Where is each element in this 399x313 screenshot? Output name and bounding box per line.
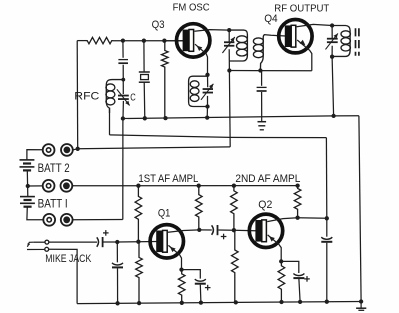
node junction osc tank bottom <box>205 104 209 108</box>
wire battery mid to jack <box>28 185 43 187</box>
node junction ground bus / crystal <box>143 116 147 120</box>
node junction Q1 base / C9 <box>115 240 119 244</box>
capacitor C3 (variable, tuning C) <box>118 95 129 97</box>
wire ground riser (bus to battery negative) <box>122 119 124 220</box>
inductor T1 primary winding <box>229 30 247 61</box>
wire mike jack tip lead <box>33 241 45 243</box>
capacitor C6 (RF bypass) <box>257 86 267 88</box>
wire right-side ground return <box>359 116 361 302</box>
wire Q1 emitter to C10 <box>182 270 201 279</box>
connector mike jack plug symbol <box>27 242 33 247</box>
crystal Y1 upper lead <box>143 41 145 72</box>
arrow Q2 emitter (PNP, pointing in) <box>269 236 275 241</box>
wire row3 jack to ground riser <box>73 219 123 221</box>
connector mike jack sleeve contact <box>45 247 49 251</box>
svg-text:MIKE JACK: MIKE JACK <box>45 253 92 265</box>
node junction top rail / C2 branch <box>121 38 125 42</box>
wire row2 jack to AF rail <box>73 185 74 187</box>
wire C11 to Q2 base <box>218 229 257 232</box>
node junction osc tank top <box>205 73 209 77</box>
node junction rail / R8 <box>232 184 236 188</box>
node junction modulation line / C13 <box>325 216 329 220</box>
wire left vertical B+ riser <box>76 41 79 149</box>
node junction rail / R6 <box>197 184 201 188</box>
wire battery B2 positive lead <box>27 150 43 160</box>
node junction AF bus / R7 <box>234 300 238 304</box>
wire C2 branch vertical upper <box>122 41 124 58</box>
node junction ground bus / C3 <box>121 116 125 120</box>
node junction AF bus / R9 <box>279 300 283 304</box>
node junction ground bus / output tank <box>331 114 335 118</box>
svg-text:BATT 2: BATT 2 <box>38 161 70 175</box>
label + (C12 polarity) <box>304 278 310 280</box>
inductor L2 (output tank coil) <box>332 26 350 57</box>
wire RF emitter return line <box>229 70 311 72</box>
node junction Q1 emitter <box>179 267 183 271</box>
wire Q1 collector to C11 <box>199 229 212 231</box>
wire output tank to RF ground bus <box>332 57 334 116</box>
wire C2-to-C3 vertical <box>122 65 124 94</box>
transistor Q2 <box>249 214 282 247</box>
arrow Q3 emitter (PNP, pointing in) <box>197 46 203 51</box>
wire Q1 base lead <box>117 241 156 244</box>
crystal Y1 (plates and box) <box>139 71 150 73</box>
node junction AF bus / C9 <box>115 301 119 305</box>
node junction rail / R3 <box>136 184 140 188</box>
capacitor C4 (variable, osc tank) <box>203 88 213 90</box>
capacitor C5 (variable, T1 primary) <box>224 41 234 43</box>
resistor R6 (Q1 collector load) <box>196 186 203 230</box>
resistor R2 (osc bias to ground) <box>162 41 169 118</box>
svg-text:Q3: Q3 <box>152 19 165 31</box>
node junction AF bus / R4 <box>137 301 141 305</box>
battery B1 (BATT 1) <box>20 196 35 198</box>
transistor Q1 <box>150 225 183 258</box>
node junction AF bus / R5 <box>180 301 184 305</box>
wire modulation line (RFC to Q2 collector) <box>110 135 327 138</box>
capacitor C9 (base RF bypass) upper lead <box>116 242 118 262</box>
wire C7 lower lead <box>331 46 333 57</box>
wire top-left rail (osc base bias) <box>77 40 87 42</box>
wire battery B2-B1 link <box>26 170 29 196</box>
node junction RFC tap <box>121 78 125 82</box>
ground symbol (bottom right) <box>360 302 362 309</box>
capacitor C8 (mike coupling, electrolytic) <box>97 237 99 247</box>
capacitor C13 (modulation coupling) upper lead <box>326 218 328 236</box>
wire mike tip to coupling cap <box>49 241 97 243</box>
node junction Q2 emitter <box>279 259 283 263</box>
wire Q3 base lead <box>164 40 184 42</box>
wire Q3 collector lead <box>194 30 229 32</box>
resistor R3 (Q1 upper bias) <box>135 186 142 242</box>
capacitor C6 (emitter bypass) upper lead <box>261 71 263 86</box>
arrow Q4 emitter (pointing out) <box>300 40 306 45</box>
battery B2 (BATT 2) <box>20 159 35 161</box>
capacitor C7 (variable, output tank) <box>327 38 338 40</box>
node junction Q2 collector <box>295 216 299 220</box>
node junction AF bus right end <box>359 299 363 303</box>
antenna core (dashed) line 2 <box>358 28 360 56</box>
resistor R7 (Q2 upper bias) <box>231 186 238 231</box>
label + (C11 polarity) <box>221 236 227 238</box>
capacitor C9 lower lead <box>117 268 119 303</box>
resistor R5 (Q1 emitter) <box>178 270 185 303</box>
wire Q2 emitter to C12 <box>281 261 299 273</box>
antenna core (dashed) line 1 <box>355 28 357 56</box>
wire Q2 collector to modulation line <box>298 217 327 220</box>
wire C8 to Q1 base node <box>104 241 118 243</box>
wire Q1 emitter lead <box>168 245 181 269</box>
wire C10 lower lead <box>199 285 202 303</box>
wire C5 lower lead <box>228 49 230 70</box>
wire Q2 emitter lead <box>268 235 282 262</box>
svg-text:RF OUTPUT: RF OUTPUT <box>274 4 329 15</box>
node junction B+ riser / battery jack <box>76 147 80 151</box>
wire Q4 collector lead <box>297 24 333 26</box>
connector jack pair row 3 (battery negative) <box>43 214 55 226</box>
svg-text:BATT I: BATT I <box>38 196 68 210</box>
resistor R4 (Q1 lower bias) <box>136 242 143 303</box>
svg-text:1ST AF AMPL: 1ST AF AMPL <box>138 173 198 185</box>
arrow Q1 emitter (PNP, pointing in) <box>170 247 176 252</box>
node junction output tank bottom <box>330 55 334 59</box>
svg-text:RFC: RFC <box>74 90 99 102</box>
node junction ground bus / R2 <box>163 116 167 120</box>
connector mike jack tip contact <box>45 240 49 244</box>
capacitor C13 (modulation coupling) <box>321 237 332 239</box>
svg-text:Q1: Q1 <box>158 208 171 220</box>
wire RFC bottom lead <box>109 108 111 135</box>
wire RF B+ vertical <box>228 71 231 147</box>
svg-text:Q4: Q4 <box>264 13 278 25</box>
ground symbol (RF bypass) <box>261 117 263 122</box>
crystal Y1 lower lead <box>143 82 146 118</box>
node junction battery midpoint <box>26 184 30 188</box>
wire T1 secondary top to Q4 base <box>264 35 286 36</box>
resistor R1 (osc base bias, horizontal) <box>86 37 113 43</box>
wire mike sleeve to ground bus <box>49 249 77 303</box>
wire Q3 emitter lead <box>195 44 208 75</box>
node junction tank bottom left <box>227 68 231 72</box>
capacitor C10 (Q1 emitter bypass) <box>195 279 206 281</box>
connector jack pair row 1 (B+ top) <box>43 144 55 156</box>
node junction secondary bottom <box>258 68 262 72</box>
wire RF B+ line <box>73 147 230 150</box>
resistor R8 (Q2 lower bias) <box>232 230 239 302</box>
wire C5 upper lead <box>228 30 230 42</box>
wire C3 bottom to ground bus <box>122 101 124 119</box>
node junction Q1 base / R3 <box>136 240 140 244</box>
node junction top rail / crystal branch <box>142 39 146 43</box>
label + (C8 polarity) <box>103 232 109 234</box>
wire AF supply rail <box>72 185 297 187</box>
wire osc tank to ground bus <box>206 107 208 118</box>
capacitor C9 (base RF bypass) <box>112 263 123 265</box>
transistor Q4 <box>279 20 312 53</box>
capacitor C12 (Q2 emitter bypass) <box>293 274 304 276</box>
wire Q1 collector lead <box>168 230 199 232</box>
wire C13 lower lead <box>326 243 328 302</box>
node junction ground bus / osc tank <box>205 115 209 119</box>
node junction rail / R10 <box>295 183 299 187</box>
capacitor C11 (interstage coupling, electrolytic) <box>212 225 214 235</box>
wire AF ground bus <box>77 302 361 304</box>
svg-text:Q2: Q2 <box>258 199 272 211</box>
svg-text:2ND AF AMPL: 2ND AF AMPL <box>235 173 300 185</box>
capacitor C2 (fixed, osc) <box>118 59 128 61</box>
inductor T1 secondary winding <box>260 35 264 71</box>
node junction AF bus / C10 <box>199 300 203 304</box>
wire Q2 collector lead <box>267 218 297 222</box>
resistor R10 (Q2 collector load) <box>294 186 301 218</box>
node junction top rail / R2 top <box>162 39 166 43</box>
node junction AF bus / C12 <box>298 300 302 304</box>
wire RF ground bus <box>123 116 359 119</box>
wire battery B1 negative lead <box>27 207 43 220</box>
inductor L1 (osc tank coil) <box>189 76 208 106</box>
wire modulation line vertical <box>325 138 327 219</box>
svg-text:C: C <box>130 91 136 103</box>
wire C12 lower lead <box>299 279 300 302</box>
svg-text:FM OSC: FM OSC <box>173 2 210 14</box>
wire C4 upper lead <box>207 75 209 87</box>
node junction AF bus / C13 <box>325 300 329 304</box>
node junction output tank top <box>330 23 334 27</box>
inductor RFC coil <box>106 80 123 113</box>
transistor Q3 <box>177 24 210 57</box>
resistor R9 (Q2 emitter) <box>278 261 285 302</box>
wire C7 upper lead <box>331 26 333 39</box>
node junction T1 primary top <box>227 28 231 32</box>
node junction Q2 base / R7 <box>232 228 236 232</box>
node junction Q1 collector <box>197 228 201 232</box>
wire C4 lower lead <box>207 96 209 107</box>
connector jack pair row 2 (AF B+) <box>43 180 55 192</box>
label + (C10 polarity) <box>205 287 211 289</box>
wire C6 lower lead <box>261 92 263 117</box>
wire Q4 emitter lead <box>297 40 312 71</box>
